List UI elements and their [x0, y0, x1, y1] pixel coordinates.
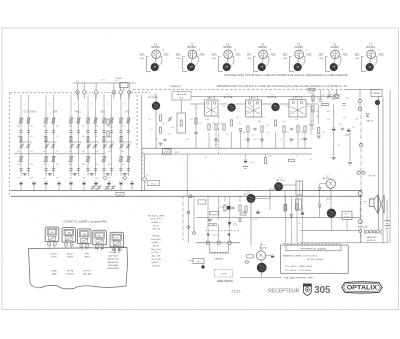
svg-text:C.4: C.4	[114, 80, 117, 82]
svg-text:BC149A: BC149A	[259, 246, 267, 249]
right vertical wire	[378, 97, 380, 231]
capacitor	[110, 168, 113, 170]
svg-text:4p7: 4p7	[43, 151, 46, 153]
wire T1 collector	[155, 93, 157, 102]
svg-text:DE PILES: DE PILES	[367, 240, 376, 242]
vertical hatch key stems to blob	[48, 246, 50, 248]
svg-text:OSC⌞: OSC⌞	[140, 58, 146, 60]
electrolytic capacitor	[57, 181, 60, 183]
svg-text:R40•30P•A3G: R40•30P•A3G	[107, 267, 119, 270]
resistor	[297, 126, 299, 132]
capacitor	[127, 168, 130, 170]
svg-text:AC132-K: AC132-K	[366, 46, 376, 49]
svg-text:THERMIS.: THERMIS.	[214, 259, 224, 261]
wire osc top	[180, 100, 182, 113]
wire battery	[386, 200, 388, 221]
adjustable coil	[77, 118, 79, 123]
adjustable coil	[20, 118, 22, 123]
arrow marks above thermistor nodes	[207, 234, 209, 237]
svg-text:ALT.1: ALT.1	[209, 97, 215, 100]
adjustable coil	[45, 156, 47, 161]
bus wire thermistor line	[196, 242, 240, 244]
svg-text:+7: +7	[327, 202, 329, 204]
svg-text:A65•GA 4Ω7: A65•GA 4Ω7	[108, 261, 119, 264]
trimmer capacitor	[110, 144, 113, 146]
svg-text:C1: C1	[24, 104, 26, 106]
svg-text:470: 470	[322, 132, 325, 134]
lead wires T.5	[298, 59, 299, 64]
svg-text:BF 255 A: BF 255 A	[149, 96, 159, 99]
svg-text:B.O: B.O	[101, 111, 105, 113]
svg-text:GA7•400 4kΩ: GA7•400 4kΩ	[107, 258, 119, 261]
electrolytic capacitor	[332, 127, 335, 129]
key hatch OM	[65, 237, 72, 241]
svg-text:1k: 1k	[287, 219, 289, 221]
svg-text:56k: 56k	[236, 117, 239, 119]
capacitor	[341, 127, 344, 129]
svg-text:OSC⌞: OSC⌞	[212, 58, 218, 60]
svg-text:2k2: 2k2	[190, 119, 193, 121]
dashed wire above thermistor	[205, 230, 240, 232]
link line above IF boxes	[191, 95, 336, 97]
second right vertical wire	[382, 97, 384, 244]
svg-text:OSC. M: OSC. M	[152, 229, 160, 231]
resistor	[107, 119, 109, 125]
oscillator coil box OSC	[177, 113, 186, 133]
trimmer capacitor	[94, 144, 97, 146]
IF transformer ALT.1	[205, 100, 219, 116]
stub to electrolytic	[245, 154, 247, 159]
capacitor	[102, 130, 105, 132]
wires from top dashed bus into switch block	[20, 95, 22, 115]
svg-text:470k: 470k	[205, 119, 209, 121]
svg-text:2k2: 2k2	[56, 136, 59, 138]
capacitor	[52, 130, 55, 132]
svg-text:T. MASQUE: T. MASQUE	[169, 85, 181, 88]
key feet BO	[95, 245, 98, 249]
resistor	[240, 213, 246, 215]
svg-text:50p: 50p	[69, 151, 72, 153]
trimmer capacitor	[52, 144, 55, 146]
wire diode chain	[319, 184, 321, 187]
transistor T6b outline	[326, 179, 335, 188]
svg-text:4p7: 4p7	[162, 123, 165, 125]
resistor	[284, 205, 286, 211]
resistor	[308, 88, 315, 90]
capacitor	[290, 127, 293, 129]
svg-text:5kΩ av: 5kΩ av	[151, 183, 157, 185]
svg-text:2k2: 2k2	[56, 151, 59, 153]
svg-text:⌟TED: ⌟TED	[270, 54, 276, 56]
electrolytic capacitor	[32, 181, 35, 183]
svg-text:2k2: 2k2	[316, 111, 319, 113]
wire to coupling cap	[266, 255, 271, 257]
left edge vertical wire of main schematic	[141, 95, 143, 191]
capacitor	[77, 168, 80, 170]
svg-text:5k6: 5k6	[301, 132, 304, 134]
svg-text:OSC⌞: OSC⌞	[355, 58, 361, 60]
svg-text:Driver: Driver	[179, 97, 185, 99]
svg-text:100: 100	[233, 223, 236, 225]
trimmer capacitor	[91, 186, 94, 188]
capacitor	[119, 168, 122, 170]
IF transformer ALT.2	[246, 100, 262, 117]
resistor	[288, 159, 294, 161]
svg-text:⌟TED: ⌟TED	[235, 54, 241, 56]
transistor	[272, 103, 280, 111]
node right bus a	[358, 99, 361, 102]
svg-text:50µ: 50µ	[339, 124, 342, 126]
capacitor	[110, 130, 113, 132]
key hatch PO	[113, 242, 120, 246]
capacitor	[194, 131, 197, 133]
svg-text:4k7: 4k7	[243, 211, 246, 213]
svg-text:50p: 50p	[95, 125, 98, 127]
trimmer capacitor	[103, 144, 106, 146]
electrolytic capacitor	[19, 181, 22, 183]
key button OM	[62, 228, 76, 243]
transistor TR right small	[375, 100, 380, 105]
capacitor	[319, 99, 322, 101]
svg-text:BF255A: BF255A	[258, 46, 267, 49]
resistor	[70, 137, 72, 142]
svg-text:2k2: 2k2	[17, 151, 20, 153]
svg-text:50p: 50p	[95, 177, 98, 179]
svg-text:PU•A2: PU•A2	[51, 269, 57, 272]
ground	[158, 142, 162, 144]
svg-text:C5: C5	[107, 104, 109, 106]
lead wires T.1	[155, 59, 156, 64]
svg-text:PO 500 à 1605 kc: PO 500 à 1605 kc	[307, 259, 324, 261]
svg-text:50p: 50p	[82, 136, 85, 138]
svg-text:ALT.2: ALT.2	[251, 97, 257, 100]
transistor T.3 bottom view (dark)	[223, 63, 231, 71]
svg-text:220p: 220p	[345, 98, 349, 100]
svg-text:Prise: Prise	[345, 214, 349, 216]
ground	[332, 157, 336, 159]
cadre antenna box	[120, 83, 129, 88]
electrolytic capacitor	[347, 128, 350, 130]
svg-text:OM: OM	[67, 233, 71, 235]
trimmer capacitor	[77, 144, 80, 146]
electrolytic capacitor	[82, 181, 85, 183]
bus wire mid-low	[196, 217, 360, 219]
adjustable coil	[45, 118, 47, 123]
node right c	[359, 143, 362, 146]
electrolytic capacitor	[256, 210, 259, 212]
wires output pair	[260, 243, 262, 251]
svg-text:C2: C2	[49, 104, 51, 106]
transistor T.6 bottom view (dark)	[330, 63, 338, 71]
svg-text:⌟TED: ⌟TED	[306, 54, 312, 56]
dashed vertical separator	[218, 116, 220, 154]
diode	[366, 114, 369, 117]
svg-text:G.T.L-O.N.G: G.T.L-O.N.G	[24, 111, 37, 113]
svg-text:DET⌞: DET⌞	[283, 54, 289, 56]
wire speaker to bus	[359, 195, 361, 220]
wire into ALT1	[190, 103, 205, 105]
svg-text:CAPS A L'AP: CAPS A L'AP	[357, 226, 369, 229]
svg-text:C.4: C.4	[76, 80, 79, 82]
svg-text:50p: 50p	[17, 125, 20, 127]
svg-text:30p: 30p	[171, 127, 174, 129]
bus wire lower A	[11, 190, 363, 192]
svg-text:6p8: 6p8	[95, 151, 98, 153]
svg-text:10n: 10n	[108, 177, 111, 179]
volume pot box	[148, 181, 160, 186]
svg-text:2k2: 2k2	[155, 139, 158, 141]
diode	[290, 215, 293, 218]
dash-dot line pickup	[182, 196, 184, 240]
svg-text:MASQUES AVEC POLARITES A L: MASQUES AVEC POLARITES A L'AIDE DE CONTR…	[224, 74, 347, 77]
diode	[318, 187, 321, 190]
svg-text:10n: 10n	[30, 136, 33, 138]
svg-text:6n8: 6n8	[295, 119, 298, 121]
svg-text:OSC⌞: OSC⌞	[247, 58, 253, 60]
transistor T.4 bottom view (dark)	[258, 63, 266, 71]
switch matrix vertical wires	[20, 114, 22, 176]
transistor T.4 top view (socket)	[259, 50, 268, 59]
resistor	[195, 118, 197, 124]
svg-text:RÉCEPTEUR: RÉCEPTEUR	[268, 287, 299, 294]
wire T2 links	[220, 103, 228, 105]
resistor	[245, 206, 247, 212]
wire right col T5 to bus	[330, 190, 332, 209]
svg-text:7/PU•: 7/PU•	[85, 253, 90, 255]
capacitor	[127, 130, 130, 132]
svg-text:4n7: 4n7	[322, 95, 325, 97]
adjustable coil	[70, 156, 72, 161]
diode	[239, 219, 242, 222]
svg-text:10n: 10n	[69, 125, 72, 127]
trimmer capacitor	[105, 186, 108, 188]
svg-text:4k7: 4k7	[298, 223, 301, 225]
coupling caps bracket	[247, 255, 254, 258]
svg-text:8k2: 8k2	[254, 139, 257, 141]
node circles on trimmer line	[104, 177, 107, 180]
resistor	[296, 204, 298, 210]
resistor	[223, 124, 225, 130]
ground	[303, 138, 307, 140]
driver transformer	[296, 181, 303, 195]
transistor T.6 top view (socket)	[331, 50, 340, 59]
svg-text:GT PO: GT PO	[51, 257, 57, 259]
electrolytic capacitor	[94, 181, 97, 183]
adjustable coil	[110, 118, 112, 123]
tuning gang top wire	[73, 82, 136, 84]
svg-text:C47: C47	[316, 116, 319, 118]
trimmer capacitor	[20, 144, 23, 146]
trimmer capacitor	[127, 144, 130, 146]
trimmer capacitor	[327, 94, 330, 96]
svg-text:110 PU•: 110 PU•	[51, 253, 58, 255]
svg-text:2k2: 2k2	[95, 164, 98, 166]
transistor T.7 top view (socket)	[367, 50, 376, 59]
resistor	[224, 205, 226, 211]
svg-text:6p8: 6p8	[56, 125, 59, 127]
svg-text:⌟TED: ⌟TED	[199, 54, 205, 56]
far right margin wire	[389, 90, 391, 243]
wire column x196	[195, 104, 197, 148]
svg-text:TRANSF: TRANSF	[373, 92, 381, 95]
svg-text:15k: 15k	[286, 106, 289, 108]
svg-text:4k7: 4k7	[212, 123, 215, 125]
svg-text:220: 220	[268, 156, 271, 158]
capacitor	[231, 206, 234, 208]
capacitor	[44, 130, 47, 132]
wires right col	[318, 105, 320, 125]
resistor	[159, 127, 161, 133]
svg-text:3n9: 3n9	[282, 121, 285, 123]
ground	[23, 173, 27, 175]
svg-text:BAT 1.9: BAT 1.9	[367, 120, 374, 123]
svg-text:1n: 1n	[280, 139, 282, 141]
speaker	[370, 199, 375, 207]
ground	[208, 219, 212, 221]
wires pots to bus	[207, 196, 209, 241]
svg-text:82k: 82k	[199, 123, 202, 125]
node right bus b	[358, 107, 361, 110]
svg-text:47n: 47n	[318, 98, 321, 100]
resistor PR1 box	[193, 259, 204, 264]
ground	[289, 138, 293, 140]
trimmer capacitor	[87, 144, 90, 146]
resistor	[45, 137, 47, 142]
svg-text:100k: 100k	[326, 111, 330, 113]
svg-text:Ver. P.250: Ver. P.250	[151, 259, 161, 261]
electrolytic capacitor	[271, 254, 274, 256]
svg-text:1n: 1n	[221, 123, 223, 125]
transistor T6 outline	[256, 251, 265, 260]
key feet GTL	[48, 242, 51, 246]
svg-text:PO•GA: PO•GA	[67, 269, 74, 272]
resistor	[20, 137, 22, 142]
tuning gang section circles	[76, 91, 80, 95]
resistor	[322, 103, 329, 105]
transistor T.2 bottom view (dark)	[187, 63, 195, 71]
ground	[348, 162, 352, 164]
svg-text:4p7: 4p7	[43, 125, 46, 127]
svg-text:SIG.GE: SIG.GE	[152, 266, 160, 268]
wire casque	[346, 220, 348, 231]
svg-text:P.M. A1: P.M. A1	[152, 234, 160, 237]
ground	[90, 173, 94, 175]
svg-text:1k2: 1k2	[307, 106, 310, 108]
resistor	[261, 126, 263, 132]
svg-text:50p: 50p	[30, 151, 33, 153]
svg-text:GA PZ: GA PZ	[84, 256, 91, 259]
svg-text:C6: C6	[124, 104, 126, 106]
svg-text:ONG A23: ONG A23	[83, 273, 91, 276]
svg-text:47p: 47p	[290, 111, 293, 113]
resistor	[120, 137, 122, 142]
adjustable coil	[70, 118, 72, 123]
wire T3 links	[262, 103, 272, 105]
svg-text:2k2: 2k2	[17, 177, 20, 179]
dashed enclosure keyboard switch block	[10, 92, 74, 94]
electrolytic capacitor	[244, 159, 247, 161]
capacitor	[94, 168, 97, 170]
dashed box corp	[215, 270, 233, 278]
resistor	[304, 126, 306, 132]
trimmer capacitor	[97, 186, 100, 188]
transistor	[274, 182, 282, 190]
resistor	[247, 126, 249, 132]
svg-text:GA A2: GA A2	[51, 273, 57, 276]
svg-text:6V••••A7: 6V••••A7	[109, 251, 116, 254]
svg-text:AC128K: AC128K	[294, 46, 303, 49]
transistor	[247, 194, 255, 202]
trimmer capacitor	[111, 186, 114, 188]
svg-text:M10••25AΩ: M10••25AΩ	[108, 264, 118, 267]
adjustable coil	[120, 118, 122, 123]
svg-text:P.B.1: P.B.1	[75, 111, 81, 113]
capacitor	[69, 168, 72, 170]
svg-text:DET⌞: DET⌞	[319, 54, 325, 56]
M32 box	[116, 193, 124, 197]
svg-text:25µ: 25µ	[352, 127, 355, 129]
TRANS box top right	[371, 90, 382, 97]
diode	[318, 204, 321, 207]
svg-text:455 kc: 455 kc	[153, 225, 160, 227]
svg-text:1n5: 1n5	[310, 121, 313, 123]
ground	[48, 173, 52, 175]
dashed line continuation to oscillator	[131, 91, 150, 93]
svg-text:OSC⌞: OSC⌞	[319, 58, 325, 60]
wire output stage bottom	[240, 276, 281, 278]
key button GTL	[45, 227, 59, 242]
key hatch GTL	[48, 236, 55, 240]
key feet OM	[65, 242, 68, 246]
trimmer capacitor	[168, 117, 171, 119]
svg-text:O.M: O.M	[53, 111, 57, 113]
svg-text:DET⌞: DET⌞	[176, 54, 182, 56]
resistor	[230, 120, 232, 126]
hatch ground marks left of volume pot	[141, 148, 143, 150]
svg-text:220k: 220k	[296, 125, 300, 127]
terminal circles top	[357, 171, 360, 174]
resistor	[159, 115, 161, 121]
svg-text:GO : 150 kc — PO L 454 kΩ: GO : 150 kc — PO L 454 kΩ	[285, 270, 312, 272]
svg-text:4n7: 4n7	[230, 119, 233, 121]
svg-text:47: 47	[296, 156, 298, 158]
svg-text:AC180K: AC180K	[330, 46, 339, 49]
resistor	[208, 124, 210, 130]
link line mid block	[14, 153, 105, 155]
svg-text:R13: R13	[331, 99, 334, 101]
capacitor	[309, 123, 312, 125]
svg-text:6p8: 6p8	[69, 164, 72, 166]
svg-text:MF.1 B.0B: MF.1 B.0B	[177, 94, 187, 96]
transistor	[327, 209, 336, 218]
transistor T.1 bottom view (dark)	[151, 63, 159, 71]
lead wires T.4	[262, 59, 263, 64]
key button BO	[93, 230, 107, 245]
ground	[106, 173, 110, 175]
node pickup	[193, 232, 196, 235]
svg-text:OM 63: OM 63	[67, 257, 73, 259]
resistor	[103, 137, 105, 142]
adjustable coil	[120, 156, 122, 161]
svg-text:A40•••40Ω: A40•••40Ω	[109, 254, 118, 257]
capacitor	[19, 130, 22, 132]
ground	[123, 173, 127, 175]
svg-text:DET⌞: DET⌞	[355, 54, 361, 56]
svg-text:CONTACTS CLAVIER ( vue arr: CONTACTS CLAVIER ( vue arrière PB )	[63, 221, 107, 224]
transistor	[152, 102, 160, 110]
svg-text:BF254A: BF254A	[188, 46, 197, 49]
svg-text:470: 470	[168, 134, 171, 136]
